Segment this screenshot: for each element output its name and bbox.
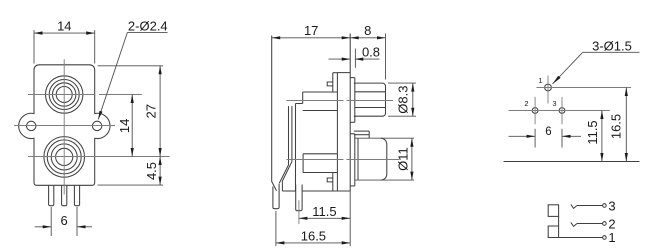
svg-text:1: 1 <box>608 230 615 245</box>
svg-text:16.5: 16.5 <box>609 114 624 139</box>
svg-text:4.5: 4.5 <box>144 162 159 180</box>
svg-text:14: 14 <box>57 19 71 34</box>
svg-text:8: 8 <box>364 23 371 38</box>
svg-text:3: 3 <box>608 199 615 214</box>
svg-text:Ø11: Ø11 <box>395 147 410 171</box>
svg-text:3-Ø1.5: 3-Ø1.5 <box>592 39 632 54</box>
svg-text:Ø8.3: Ø8.3 <box>396 86 411 114</box>
svg-text:0.8: 0.8 <box>362 45 380 60</box>
svg-text:6: 6 <box>60 213 67 228</box>
svg-text:2: 2 <box>524 99 528 108</box>
svg-text:27: 27 <box>143 104 158 118</box>
svg-text:3: 3 <box>552 99 556 108</box>
svg-text:11.5: 11.5 <box>585 120 600 144</box>
svg-text:6: 6 <box>545 126 551 138</box>
svg-text:16.5: 16.5 <box>301 228 326 243</box>
svg-text:2-Ø2.4: 2-Ø2.4 <box>128 18 168 33</box>
svg-text:1: 1 <box>538 76 542 85</box>
svg-text:14: 14 <box>117 119 132 133</box>
svg-text:17: 17 <box>304 23 318 38</box>
svg-text:11.5: 11.5 <box>312 204 336 219</box>
